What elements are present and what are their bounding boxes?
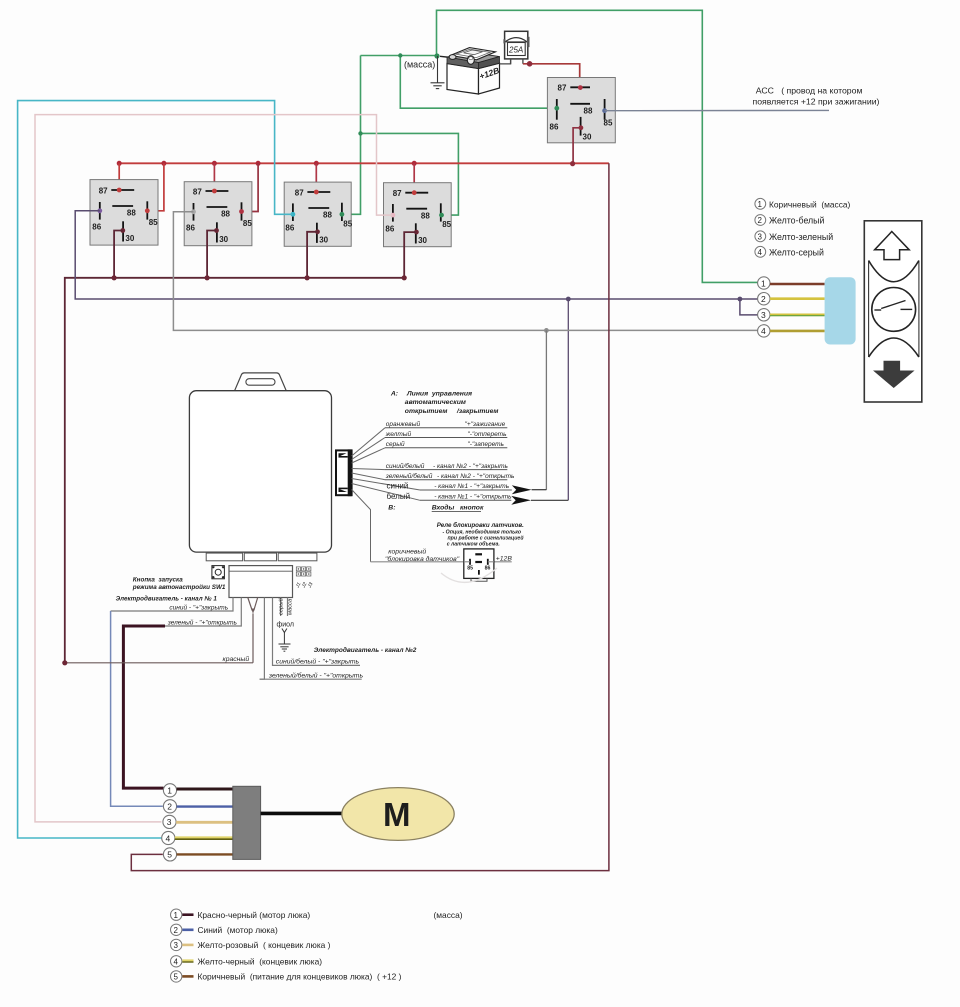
jumper block J1 J2 J3 (296, 567, 311, 576)
svg-text:85: 85 (243, 219, 252, 228)
svg-text:желтый: желтый (385, 430, 412, 438)
relay K1 pin 85 (146, 201, 148, 219)
module pin: синий/белый канал2 (273, 598, 361, 666)
svg-text:- канал №1 - "+"открыть: - канал №1 - "+"открыть (434, 494, 512, 501)
connector block (light blue) of sunroof switch (825, 277, 856, 344)
svg-text:(масса): (масса) (404, 60, 435, 70)
relay K4 body (384, 183, 452, 247)
relay K5 (main power relay) body (547, 78, 615, 143)
relay K2 body (184, 182, 252, 246)
svg-text:4: 4 (174, 958, 179, 967)
wire label: белый канал1 открыть + B input arrow (420, 499, 511, 501)
wire: yellow-gray circle4 to switch connector (770, 330, 825, 333)
wire: purple branch to circle 3 (740, 299, 758, 315)
node: красный joins 30-bus drop (62, 660, 67, 665)
relay K2 pin 85 (241, 202, 243, 220)
svg-text:86: 86 (186, 223, 195, 232)
wire: yellow-green circle3 to switch connector (770, 313, 825, 316)
relay K1 pin 30 (122, 221, 124, 241)
svg-text:Кнопка запуска: Кнопка запуска (133, 577, 183, 584)
svg-text:открытием /закрытием: открытием /закрытием (405, 408, 499, 415)
wire: circle4 to motor block (yellow-black) (175, 836, 233, 838)
relay K5 pin 85 (604, 99, 606, 120)
wire: purple riser down to белый arrow (567, 299, 569, 500)
svg-text:синий - "+"закрыть: синий - "+"закрыть (169, 604, 228, 612)
node: bus junction K3-87 (314, 161, 319, 166)
svg-text:АСС ( провод на котором: АСС ( провод на котором (756, 86, 863, 96)
node: green junction relay K3/K4 85 branch (358, 131, 362, 135)
relay K1 pin 87 (111, 189, 134, 191)
svg-text:Желто-черный (концевик люка): Желто-черный (концевик люка) (198, 957, 323, 967)
svg-text:30: 30 (219, 235, 228, 244)
svg-text:при работе с сигнализацией: при работе с сигнализацией (448, 535, 525, 542)
wire: K2 87 riser (213, 163, 215, 191)
svg-text:3: 3 (174, 941, 179, 950)
connector pin circle 4 (758, 325, 770, 337)
wire: red +12 bus over relay row (119, 162, 609, 164)
module U1 main body (189, 391, 331, 552)
relay K1 pin 86 (99, 202, 101, 220)
motor M1 (люк) (342, 788, 454, 841)
svg-text:автоматическим: автоматическим (405, 399, 466, 406)
svg-text:Коричневый (масса): Коричневый (масса) (769, 199, 851, 209)
module pin: зеленый открыть (165, 598, 241, 627)
svg-text:Коричневый (питание для конце: Коричневый (питание для концевиков люка)… (198, 972, 402, 982)
relay K4 pin 87 (405, 192, 428, 194)
bottom connector circle 5 (163, 848, 176, 861)
relay K5 pin 86 (556, 99, 558, 120)
node: bus junction K5-30 riser (570, 161, 575, 166)
svg-text:86: 86 (550, 122, 559, 131)
wire: circle1 to motor block (red-black) (177, 788, 233, 791)
wire: синий to bottom circle 2 (blue) (111, 611, 163, 806)
relay K4 pin 85 (440, 203, 442, 221)
svg-text:режима автонастройки SW1: режима автонастройки SW1 (132, 583, 226, 591)
wire: K2 30 to bottom bus (207, 231, 216, 278)
wire: brown circle1 to switch connector (770, 283, 825, 286)
svg-text:"-"отпереть: "-"отпереть (468, 431, 508, 438)
svg-text:Желто-розовый ( концевик люка: Желто-розовый ( концевик люка ) (198, 940, 331, 950)
bottom connector circle 3 (163, 815, 176, 828)
svg-text:Желто-серый: Желто-серый (769, 247, 824, 257)
svg-text:85: 85 (467, 565, 473, 571)
node: bus junction K2-85 riser (256, 161, 261, 166)
svg-text:Красно-черный (мотор люка): Красно-черный (мотор люка) (198, 910, 311, 920)
svg-text:с латчиком объема.: с латчиком объема. (447, 541, 500, 548)
svg-text:85: 85 (604, 119, 613, 128)
battery GB1 +12В (440, 48, 501, 94)
svg-text:5: 5 (167, 850, 172, 860)
connector pin circle 2 (758, 293, 770, 305)
module U1 mounting tab (235, 373, 287, 391)
svg-text:коричневый: коричневый (388, 547, 426, 555)
svg-text:- канал №2 - "+"закрыть: - канал №2 - "+"закрыть (433, 463, 509, 470)
node: green junction at battery terminal (434, 53, 439, 58)
svg-text:серый: серый (386, 440, 405, 448)
svg-text:1: 1 (174, 911, 179, 920)
wire: yellow-white circle2 to switch connector (770, 297, 825, 300)
svg-text:2: 2 (174, 926, 179, 935)
node: green junction branch to relay K5 pin 86 (398, 53, 402, 57)
svg-text:1: 1 (167, 786, 172, 796)
bottom connector circle 4 (162, 831, 175, 844)
relay K5 pin 87 (570, 86, 590, 88)
relay K3 pin 30 (316, 223, 318, 243)
node: bus junction K1-85 riser (161, 161, 166, 166)
bottom legend item 1 (171, 909, 311, 920)
bottom connector circle 1 (163, 784, 176, 797)
svg-text:Реле блокировки латчиков.: Реле блокировки латчиков. (437, 522, 524, 529)
svg-text:- Опция, необходимая только: - Опция, необходимая только (443, 529, 522, 536)
svg-text:2: 2 (761, 294, 766, 304)
bottom legend item 2 (171, 924, 278, 935)
ground (масса) symbol below battery terminal (431, 56, 445, 89)
svg-text:2: 2 (758, 216, 763, 225)
relay K5 pin 88 (570, 103, 590, 105)
module pin: зеленый/белый канал2 (260, 598, 265, 680)
relay K4 pin 86 (392, 204, 394, 222)
node: purple junction to circle 3 (738, 297, 743, 302)
module pin: серый stub (280, 598, 282, 617)
svg-text:87: 87 (193, 187, 202, 196)
svg-text:86: 86 (285, 224, 294, 233)
relay K4 pin 30 (415, 223, 417, 243)
node: 30-bus corner K4 (402, 275, 407, 280)
wire label: серый запереть (385, 447, 507, 449)
svg-text:фиол: фиол (277, 621, 295, 628)
relay K2 pin 87 (206, 190, 229, 192)
svg-text:87: 87 (393, 189, 402, 198)
svg-text:красный: красный (223, 655, 250, 663)
svg-text:2: 2 (167, 802, 172, 812)
relay K3 pin 87 (307, 191, 330, 193)
wire label: желтый отпереть (385, 437, 507, 439)
pushbutton SW1 (212, 566, 225, 579)
svg-text:25A: 25A (508, 46, 523, 55)
legend list top right: item 3 (755, 231, 833, 242)
node: 30-bus junction K1 (112, 275, 117, 280)
module pin: twisted pair красный (248, 598, 258, 663)
svg-text:4: 4 (166, 833, 171, 843)
svg-text:"-"запереть: "-"запереть (468, 441, 505, 448)
svg-text:5: 5 (174, 973, 179, 982)
wire: K4 30 to bottom bus (404, 232, 416, 278)
svg-text:4: 4 (758, 248, 763, 257)
svg-text:зеленый/белый - "+"открыть: зеленый/белый - "+"открыть (268, 671, 364, 679)
switch up-arrow (open) (875, 232, 910, 260)
svg-text:88: 88 (323, 211, 332, 220)
svg-text:30: 30 (319, 235, 328, 244)
node: fuse output dot (527, 61, 533, 67)
svg-text:86: 86 (92, 222, 101, 231)
svg-text:(масса): (масса) (434, 910, 463, 920)
bottom legend item 3 (171, 939, 331, 950)
wire: K3 87 riser (315, 163, 317, 192)
svg-text:Синий (мотор люка): Синий (мотор люка) (198, 925, 278, 935)
node: 30-bus junction K2 (205, 275, 210, 280)
relay K3 pin 88 (308, 207, 329, 209)
wire: коричневый +12 supply loop (right vertical + bottom) (131, 163, 609, 870)
svg-text:30: 30 (418, 236, 427, 245)
relay K5 pin 30 (580, 117, 582, 136)
svg-text:А:: А: (390, 390, 398, 397)
svg-text:88: 88 (584, 106, 593, 115)
svg-text:85: 85 (442, 220, 451, 229)
legend list top right: item 2 (755, 215, 825, 226)
relay K2 pin 86 (193, 203, 195, 221)
wire label: оранжевый +12 зажигание (385, 427, 507, 429)
svg-text:87: 87 (295, 188, 304, 197)
svg-text:+12В: +12В (496, 555, 513, 562)
svg-text:Электродвигатель - канал № 1: Электродвигатель - канал № 1 (116, 595, 218, 603)
relay K4 pin 88 (406, 208, 427, 210)
switch contact circle (872, 288, 916, 332)
relay K3 pin 86 (292, 203, 294, 221)
svg-text:Линия управления: Линия управления (406, 390, 472, 397)
wire: relay K5 pin 30 down to red bus (573, 128, 581, 164)
wire label: синий канал1 закрыть + B input arrow (420, 489, 512, 491)
svg-text:85: 85 (343, 219, 352, 228)
relay K3 pin 85 (341, 203, 343, 221)
relay K1 body (90, 180, 158, 246)
wire from battery to fuse (500, 59, 511, 64)
relay K1 pin 88 (112, 205, 133, 207)
wire: K1 85 to bus riser (red) (147, 163, 164, 211)
svg-text:30: 30 (583, 133, 592, 142)
svg-text:Желто-зеленый: Желто-зеленый (769, 232, 833, 242)
svg-text:88: 88 (221, 210, 230, 219)
svg-text:86: 86 (385, 224, 394, 233)
svg-text:серый: серый (278, 597, 285, 615)
svg-text:87: 87 (99, 186, 108, 195)
switch glass arcs (868, 261, 870, 358)
svg-text:синий/белый - "+"закрыть: синий/белый - "+"закрыть (276, 658, 360, 666)
svg-text:Электродвигатель - канал №2: Электродвигатель - канал №2 (314, 646, 417, 654)
svg-text:оранжевый: оранжевый (386, 420, 421, 428)
legend list top right: item 1 (755, 198, 851, 209)
wire: K2 85 to bus riser (dark red) (242, 163, 259, 211)
wire: ACC gray wire from relay K5 pin 85 (605, 109, 829, 111)
watermark arc (441, 568, 497, 582)
relay K2 pin 30 (216, 222, 218, 242)
module pin: масса stub (287, 598, 289, 617)
connector pin circle 3 (758, 309, 770, 321)
svg-text:В:: В: (388, 505, 395, 512)
legend list top right: item 4 (755, 246, 824, 257)
svg-text:88: 88 (127, 209, 136, 218)
svg-text:появляется +12 при зажигании): появляется +12 при зажигании) (753, 97, 880, 107)
node: bus junction K1-87 (117, 161, 122, 166)
node: bus junction K4-87 (412, 161, 417, 166)
svg-text:87: 87 (558, 84, 567, 93)
wire: K1 87 riser (118, 163, 120, 190)
svg-text:85: 85 (149, 218, 158, 227)
wire: fuse output to relay K5 pin 87 (dark red) (523, 64, 580, 87)
svg-text:86: 86 (485, 565, 491, 571)
node: bus junction K2-87 (212, 161, 217, 166)
wire: gray riser down to синий arrow (545, 330, 547, 489)
svg-text:1: 1 (761, 278, 766, 288)
node: purple junction to B-input белый (566, 297, 571, 302)
motor connector block (gray) (233, 786, 261, 859)
svg-text:зеленый - "+"открыть: зеленый - "+"открыть (167, 618, 238, 626)
svg-text:88: 88 (421, 211, 430, 220)
wire: K1 30 to bottom bus (114, 231, 123, 278)
relay K2 pin 88 (207, 206, 228, 208)
wire: pink K4-86 to bottom connector circle 3 (35, 115, 393, 822)
svg-text:Входы кнопок: Входы кнопок (432, 504, 484, 512)
svg-text:Желто-белый: Желто-белый (769, 216, 824, 226)
module pin: синий закрыть (111, 598, 233, 612)
wire: purple K1-86 to right circle 2 and 3 (75, 211, 758, 299)
node: 30-bus junction K3 (305, 275, 310, 280)
module U1 feet (206, 553, 242, 561)
sunroof switch panel SA1 (864, 221, 922, 402)
wire: circle2 to motor block (blue) (177, 805, 233, 807)
switch down-arrow (filled) (874, 361, 913, 387)
connector pin circle 1 (758, 277, 770, 289)
ground symbol under фиол (279, 629, 291, 652)
svg-text:4: 4 (761, 326, 766, 336)
svg-text:масса: масса (288, 598, 294, 615)
wire: circle3 to motor block (yellow-pink) (176, 821, 233, 824)
wire: K4 87 riser (413, 163, 415, 192)
svg-text:3: 3 (758, 233, 763, 242)
fuse FU1 25A (503, 31, 529, 64)
node: gray junction to B-input синий (544, 328, 549, 333)
svg-text:"+"зажигание: "+"зажигание (465, 421, 506, 428)
wire: green масса net (battery to top-right and branches) (343, 10, 758, 282)
wire: circle5 to motor block (brown) (177, 853, 233, 855)
wire: thick black to motor (261, 812, 343, 816)
wire: relay 30 bottom bus (65, 278, 404, 663)
svg-text:1: 1 (758, 200, 763, 209)
wire: блокировка датчиков wire to relay K6 (371, 561, 464, 563)
wire: красно-черный thick wire to bottom circle 1 (123, 626, 165, 788)
svg-text:- канал №2 - "+"открыть: - канал №2 - "+"открыть (437, 473, 515, 480)
svg-text:М: М (383, 796, 411, 833)
svg-text:синий/белый: синий/белый (386, 462, 425, 470)
svg-text:синий: синий (387, 481, 409, 490)
relay K3 body (284, 182, 351, 246)
wire: красный to left bus corner (65, 662, 253, 664)
svg-text:- канал №1 - "+"закрыть: - канал №1 - "+"закрыть (434, 483, 510, 490)
wire label: синий/белый канал2 закрыть (385, 469, 507, 471)
wire: fan out from X1 to label lines (352, 428, 420, 562)
svg-text:30: 30 (125, 234, 134, 243)
bottom legend item 4 (171, 956, 323, 967)
module side connector X1 (336, 450, 352, 495)
wire: cyan K3-86 to bottom connector circle 4 (18, 101, 293, 838)
module bottom terminal box (229, 566, 293, 598)
svg-text:3: 3 (761, 310, 766, 320)
bottom legend item 5 (171, 971, 402, 982)
svg-text:3: 3 (167, 817, 172, 827)
wire: K3 30 to bottom bus (307, 232, 317, 278)
svg-text:зеленый/белый: зеленый/белый (385, 472, 433, 480)
bottom connector circle 2 (163, 800, 176, 813)
wire: gray K2-86 to right circle 4 (173, 212, 757, 331)
wire label: зеленый/белый канал2 открыть (385, 479, 507, 481)
svg-text:белый: белый (387, 492, 411, 501)
relay K6 (sensor blocking) (464, 549, 494, 581)
